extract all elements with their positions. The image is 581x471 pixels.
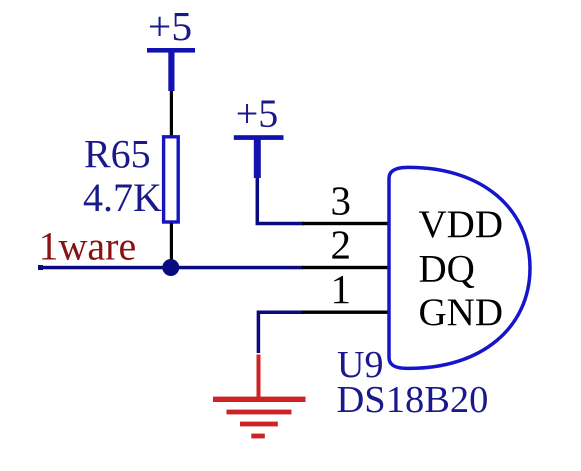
junction dot: [162, 259, 179, 276]
IC U9 body outline (TO-92 shape): [389, 167, 530, 368]
wire: pin 1 left and down to ground: [258, 312, 304, 353]
IC U9 pin 3 stub: [302, 222, 390, 225]
svg-text:R65: R65: [84, 132, 151, 177]
svg-text:+5: +5: [236, 91, 279, 136]
wire: P1 to resistor R65 top: [170, 91, 173, 137]
svg-text:2: 2: [331, 222, 352, 268]
svg-text:DS18B20: DS18B20: [337, 379, 489, 421]
wire: resistor bottom to junction: [170, 223, 173, 267]
power +5 (P2) symbol bar: [234, 135, 284, 178]
svg-text:+5: +5: [148, 3, 192, 49]
svg-text:GND: GND: [419, 291, 504, 334]
IC U9 pin 1 stub: [302, 311, 390, 314]
resistor R65 body: [164, 137, 179, 222]
svg-text:VDD: VDD: [419, 203, 504, 246]
IC U9 pin 2 stub: [302, 266, 390, 269]
ground symbol: [213, 355, 306, 439]
power +5 (P1) symbol bar: [147, 48, 195, 91]
svg-text:DQ: DQ: [419, 247, 475, 290]
wire: net 1ware horizontal: [39, 266, 303, 270]
svg-text:1ware: 1ware: [39, 224, 137, 269]
svg-text:1: 1: [331, 266, 352, 312]
svg-text:4.7K: 4.7K: [83, 175, 162, 220]
svg-text:3: 3: [331, 178, 352, 224]
wire: P2 down and right to pin 3: [257, 178, 304, 224]
